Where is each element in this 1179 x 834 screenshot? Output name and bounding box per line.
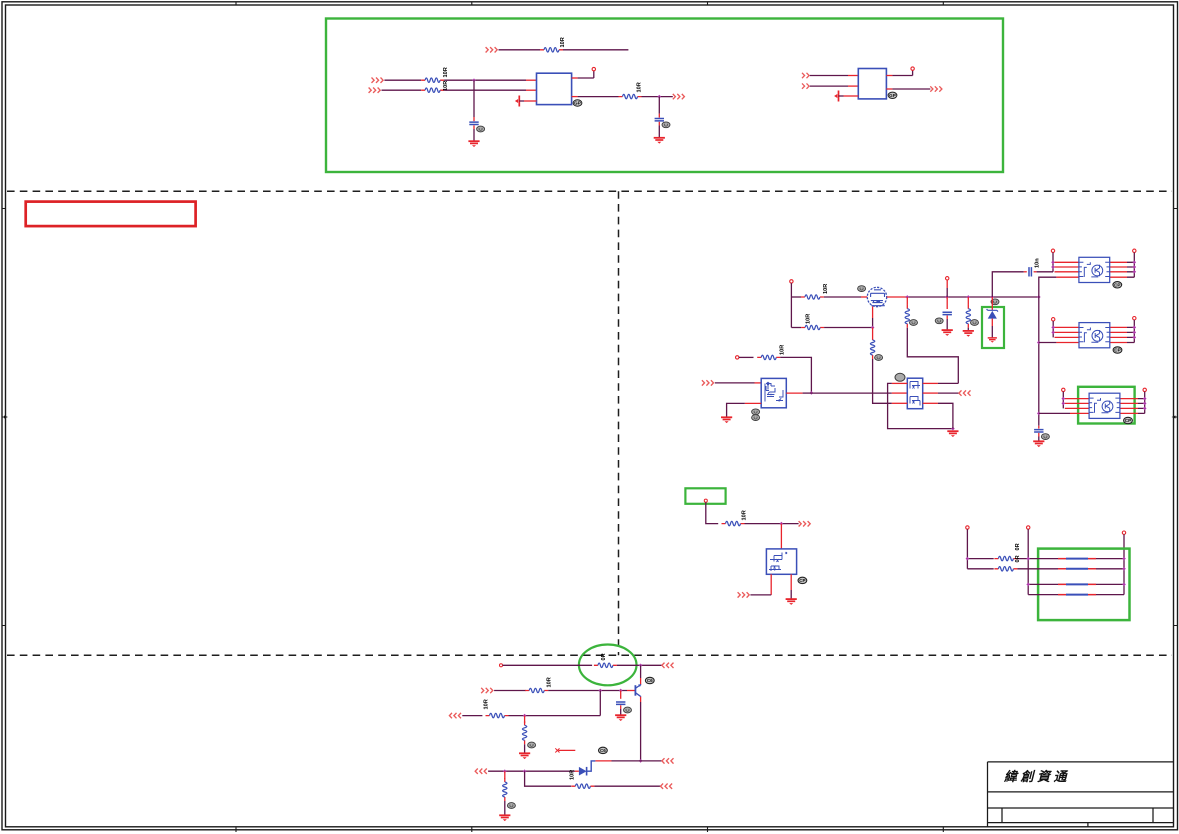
frame zone ticks left [2, 209, 6, 626]
port P13 row2 input [481, 688, 493, 693]
svg-text:緯創資通: 緯創資通 [1003, 769, 1070, 784]
label Q1 [858, 286, 866, 292]
capacitor C4 series [1029, 267, 1031, 276]
wire rail D up to C4 [992, 272, 1024, 297]
wire R17 to ground [524, 744, 526, 752]
label D1 [991, 299, 999, 305]
frame zone ticks bottom [236, 827, 943, 832]
wire node to R10 [739, 356, 754, 358]
svg-text:10R: 10R [637, 82, 643, 92]
port P11 input [738, 592, 750, 597]
wire U7 row1 right up [923, 382, 938, 384]
wire top net left [499, 49, 541, 51]
wire R4 to node [642, 96, 673, 98]
green highlight box around zener [982, 307, 1004, 348]
wire R7 down to U4 row3 [873, 359, 892, 403]
label U5 CP [1113, 347, 1122, 353]
frame zone ticks top [236, 2, 943, 5]
label C7 [624, 707, 632, 713]
wire U2 out pin up to node [886, 75, 892, 77]
ferrite bead row 4 [1058, 594, 1066, 596]
opto-coupler U5 [1079, 323, 1110, 348]
green highlight box around U6 [1078, 387, 1135, 424]
port P7 output [930, 86, 942, 91]
resistor R11 [722, 521, 745, 525]
wire row2 [494, 690, 526, 692]
node open circle in green box [704, 499, 707, 502]
wire row4 [488, 770, 575, 772]
svg-text:CP: CP [799, 578, 805, 583]
svg-text:CP: CP [1114, 348, 1120, 353]
node junction opto2 branch [1037, 341, 1041, 345]
dashed section divider horizontal upper [7, 190, 1172, 192]
node junction row4 b [523, 769, 527, 773]
wire left vertical [790, 283, 792, 327]
label U6 CP [1124, 417, 1133, 423]
capacitor C3 [943, 312, 952, 314]
node junction row2 a [598, 689, 602, 693]
wire R18 to ground [504, 801, 506, 815]
wire U2 out pin 2 [886, 88, 892, 90]
wire Q1 source down [872, 307, 874, 319]
wire U1 out pin up to node [572, 77, 578, 79]
node junction rail E [1037, 295, 1041, 299]
svg-text:10R: 10R [779, 345, 785, 355]
op-amp U1 [537, 73, 572, 104]
svg-text:10R: 10R [560, 37, 566, 47]
svg-text:0R: 0R [1015, 543, 1021, 550]
node junction rail C [966, 295, 970, 299]
label U7 [895, 373, 905, 381]
node junction row4 a [503, 769, 507, 773]
wire node down to C2 [658, 97, 660, 114]
node open circle above U1 [592, 67, 595, 70]
wire row 1 right [1017, 558, 1124, 560]
wire U7 row3 right down [923, 402, 938, 404]
ground below R9 [963, 331, 974, 337]
wire vertical A [966, 529, 968, 569]
wire R14 to port [617, 664, 662, 666]
wire row B [382, 89, 422, 91]
resistor R15 [525, 688, 548, 692]
wire row A [384, 79, 421, 81]
svg-text:0R: 0R [1015, 555, 1021, 562]
wire R10 corner down to node [780, 357, 811, 393]
node dots row 3 [1026, 583, 1030, 587]
frame center arrow right [1172, 416, 1176, 419]
svg-text:10R: 10R [806, 314, 812, 324]
resistor R1 [540, 48, 563, 52]
green highlight small box [685, 488, 725, 504]
wire opto1 right pins [1110, 262, 1127, 277]
wire row 4 [1028, 594, 1124, 596]
wire rail right of Q1 [887, 296, 906, 298]
wire R9 to ground [967, 328, 969, 331]
label C6 mid [599, 747, 608, 753]
wire marker to U1 [519, 100, 524, 102]
wire opto3 left pins [1065, 399, 1089, 409]
svg-text:10R: 10R [443, 81, 449, 91]
wire opto3 left vertical [1062, 392, 1064, 409]
wire diode cathode to emitter node [595, 760, 611, 762]
diode D2 [579, 761, 596, 776]
wire Q6 emitter down [640, 697, 642, 702]
svg-text:10n: 10n [1035, 258, 1041, 268]
port P12 row1 [662, 663, 674, 668]
wire row B to U1 [444, 89, 526, 91]
port P14 row3 [449, 713, 461, 718]
label R17 [528, 742, 536, 748]
svg-text:10R: 10R [569, 770, 575, 780]
node junction rail B [945, 295, 949, 299]
wire opto1 left vertical [1052, 253, 1054, 272]
svg-text:GP: GP [574, 101, 581, 106]
wire opto2 right vertical [1133, 320, 1135, 343]
wire row5 to port [594, 785, 660, 787]
node junction emitter [639, 759, 643, 763]
node open circle left of R10 [736, 356, 739, 359]
ground below U8 [786, 599, 797, 605]
node junction row3 [523, 714, 527, 718]
title block outline [988, 762, 1174, 827]
node dots opto3 right [1143, 397, 1147, 401]
wire opto3 right pins [1120, 399, 1138, 414]
node dots opto2 right [1132, 326, 1136, 330]
transistor Q1 mosfet [867, 287, 886, 306]
wire row B to junction [824, 327, 873, 329]
wire opto3 right vertical [1144, 392, 1146, 414]
wire U1 out pin 2 [572, 96, 578, 98]
wire junction down to R7 [872, 328, 874, 337]
wire C1 to ground [473, 125, 475, 129]
wire marker to U2 [839, 95, 844, 97]
resistor R6 row B [801, 325, 824, 329]
wire opto3 pin4 from rail [1039, 412, 1070, 414]
port P4 output [673, 94, 685, 99]
label U1 GP [573, 100, 582, 106]
wire row 3 [1028, 583, 1124, 585]
node junction row1 [639, 663, 643, 667]
resistor R7 vertical [870, 336, 874, 359]
port P17 row5 [661, 784, 673, 789]
frame center arrow left [4, 416, 8, 419]
wire rail D down to zener [991, 297, 993, 310]
wire row 2 [967, 568, 993, 570]
svg-text:0R: 0R [601, 653, 607, 660]
node junction U4 out [810, 391, 814, 395]
ferrite bead row 2 [1058, 568, 1066, 570]
resistor R5 on rail [801, 295, 824, 299]
wire U8 pin right to ground [790, 574, 792, 590]
no-connect marker [555, 748, 575, 752]
red annotation box (empty) [26, 202, 196, 227]
resistor R13 [994, 567, 1017, 571]
wire zener to ground [991, 319, 993, 326]
wire opto2 pin4 from rail [1039, 342, 1057, 344]
svg-text:10R: 10R [742, 510, 748, 520]
ground in zener box [988, 338, 997, 343]
node junction gate [871, 326, 875, 330]
label U4 b [752, 415, 760, 421]
wire node b down to C6cap [620, 691, 622, 699]
label R7 [875, 355, 883, 361]
resistor R12 [994, 556, 1017, 560]
green highlight box around top sub-circuit [326, 19, 1003, 173]
wire U4 out [786, 392, 802, 394]
port P8 into U4 [702, 380, 714, 385]
ground below R17 [519, 753, 530, 759]
port P15 emitter [662, 758, 674, 763]
ground below C3 [942, 330, 953, 336]
node open circle above C3 [946, 277, 949, 280]
node junction output [657, 95, 661, 99]
node dots opto3 left [1061, 397, 1065, 401]
ferrite bead row 3 [1058, 583, 1066, 585]
wire node to C3 [946, 280, 948, 288]
wire rail C branch down [967, 297, 969, 305]
svg-text:GP: GP [889, 93, 896, 98]
power-in marker left of U2 pin 3 [834, 91, 838, 102]
ferrite bead row 1 [1058, 558, 1066, 560]
wire P6 to U2 [810, 85, 848, 87]
transistor U7 dual mosfet [907, 378, 922, 409]
resistor R17 vertical [522, 721, 526, 744]
node open circle B [1027, 526, 1030, 529]
ground below R18 [499, 815, 510, 821]
svg-text:10R: 10R [484, 699, 490, 709]
wire C5 to ground [1038, 433, 1040, 437]
ground below C1 [468, 141, 479, 147]
node open circle opto3 left [1062, 388, 1065, 391]
wire P8 to U4 [715, 382, 755, 384]
svg-text:CP: CP [1114, 282, 1120, 287]
transistor Q6 [635, 684, 641, 697]
ground below C5 [1033, 441, 1044, 447]
label C2 [662, 122, 670, 128]
resistor R9 vertical [966, 305, 970, 328]
label U4 a [752, 409, 760, 415]
port P9 output [959, 390, 971, 395]
node junction row A [472, 78, 476, 82]
diode D1 zener [987, 309, 998, 319]
wire U7 row2 right to port [923, 392, 938, 394]
wire R11 to node [745, 523, 799, 525]
wire to C5 [1038, 426, 1040, 429]
wire P5 to U2 [810, 75, 848, 77]
wire opto2 left pins [1055, 327, 1080, 337]
power-in marker left of U1 pin 3 [515, 96, 519, 107]
port P10 output [799, 521, 811, 526]
svg-text:10R: 10R [823, 284, 829, 294]
port P5 into U2 row 1 [802, 73, 809, 78]
frame zone ticks right [1174, 209, 1178, 626]
node junction opto3 branch [1037, 412, 1041, 416]
wire node to U7 row2 [811, 392, 891, 394]
wire top net right [563, 49, 628, 51]
capacitor C7 [616, 702, 625, 704]
label U8 CP [798, 577, 807, 583]
wire row3 [462, 715, 482, 717]
wire R8 down corner right down [907, 328, 958, 384]
resistor R18 vertical [503, 778, 507, 801]
resistor R14 [594, 663, 617, 667]
capacitor C1 [469, 122, 478, 124]
node dots opto1 left [1051, 260, 1055, 264]
opto-coupler U3 [1079, 257, 1110, 282]
wire U4 pin3 to ground [745, 402, 761, 404]
node junction bottom [951, 427, 955, 431]
label U2 GP [888, 92, 897, 98]
node open circle C [1122, 531, 1125, 534]
port P3 row B [369, 88, 381, 93]
wire row4 node b down to row5 [525, 771, 572, 786]
dashed section divider vertical [618, 191, 620, 655]
node open circle above U2 [911, 67, 914, 70]
node junction row2 b [619, 689, 623, 693]
node open circle opto3 right [1143, 388, 1146, 391]
wire row A to U1 [444, 79, 526, 81]
label Q6 [645, 677, 654, 683]
wire emitter to port [641, 760, 662, 762]
resistor R8 vertical [905, 305, 909, 328]
node open circle opto1 right [1133, 249, 1136, 252]
node junction R11 out [780, 522, 784, 526]
wire row B from left vertical [791, 327, 801, 329]
transistor U8 dual mosfet [766, 549, 796, 574]
ground below C7 [615, 715, 626, 721]
label U3 CP [1113, 282, 1122, 288]
label R8 [910, 320, 918, 326]
node dot row 2 [1122, 567, 1126, 571]
svg-text:10R: 10R [443, 67, 449, 77]
wire U7 row1 left loop to ground [892, 382, 908, 384]
resistor R4 [619, 94, 642, 98]
wire U8 pin left down to port [770, 574, 772, 595]
resistor R19 [571, 784, 594, 788]
wire node a down to row3 [599, 691, 601, 716]
node open circle opto1 left [1051, 249, 1054, 252]
svg-text:CP: CP [1125, 418, 1131, 423]
svg-text:C6: C6 [600, 748, 606, 753]
wire rail E main vertical down [1038, 297, 1040, 426]
capacitor C5 [1034, 430, 1043, 432]
ground below U7 loop [947, 431, 958, 437]
wire C7 to ground [620, 705, 622, 709]
wire opto1 left pins [1055, 262, 1079, 272]
wire opto2 left vertical [1052, 321, 1054, 337]
node dots opto1 right [1132, 260, 1136, 264]
wire vertical B [1027, 529, 1029, 594]
label R9 [971, 320, 979, 326]
wire row1 [503, 664, 592, 666]
wire rail E up and to opto U3 pin4 [1039, 277, 1057, 297]
wire row2 to base [548, 690, 627, 692]
wire rail to Q1 [824, 296, 861, 298]
node open circle row1 left [499, 664, 502, 667]
wire row 1 [967, 558, 993, 560]
wire row4 node a down to R18 [504, 771, 506, 779]
wire rail left segment [791, 296, 801, 298]
port P2 row A [372, 78, 384, 83]
ground below C2 [654, 138, 665, 144]
capacitor C2 [655, 119, 664, 121]
resistor R2 [421, 78, 444, 82]
node open circle A [966, 526, 969, 529]
resistor R10 [757, 355, 780, 359]
node dots opto2 left [1051, 326, 1055, 330]
node open circle top-left of rail [790, 280, 793, 283]
resistor R16 [486, 713, 509, 717]
resistor R3 [421, 88, 444, 92]
node open circle opto2 left [1052, 318, 1055, 321]
node junction rail D [990, 295, 994, 299]
wire vertical C [1123, 534, 1125, 594]
green highlight ellipse [579, 645, 637, 686]
svg-text:10R: 10R [546, 677, 552, 687]
wire node down to U8 [780, 524, 782, 549]
wire C2 to ground [658, 122, 660, 126]
TITLE BLOCK [988, 762, 1174, 827]
label C1 [477, 126, 485, 132]
wire node down corner right [706, 502, 718, 523]
transistor U4 dual mosfet [761, 378, 786, 407]
wire U7 row3 left [892, 402, 908, 404]
opto-coupler U6 [1089, 393, 1120, 418]
port P1 top net [486, 47, 498, 52]
green highlight box [1038, 549, 1129, 621]
wire row 2 right [1017, 568, 1124, 570]
port P6 into U2 row 2 [802, 83, 809, 88]
node open circle opto2 right [1133, 317, 1136, 320]
label R18 [507, 803, 515, 809]
wire opto2 right pins [1110, 327, 1127, 342]
wire junction down to C1 [473, 80, 475, 117]
op-amp U2 [858, 69, 886, 99]
svg-text:C6: C6 [647, 678, 653, 683]
wire C4 to opto vertical [1034, 271, 1037, 273]
wire node down to Q6 collector [640, 665, 642, 678]
label C5 [1041, 434, 1049, 440]
wire rail A branch down [906, 297, 908, 305]
wire junction down to R17 [524, 716, 526, 723]
dashed section divider horizontal lower [7, 654, 1172, 656]
port P16 row4 [475, 769, 487, 774]
wire row3 right [509, 715, 601, 717]
ground below U4 [721, 417, 732, 423]
node dots row 1 [966, 557, 970, 561]
node junction rail A [905, 295, 909, 299]
wire C3 to ground [946, 316, 948, 320]
wire opto1 right vertical [1133, 253, 1135, 278]
label C3 [935, 318, 943, 324]
